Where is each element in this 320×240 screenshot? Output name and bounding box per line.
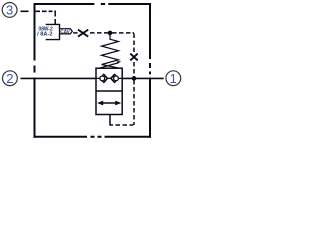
check valve left diamond [100, 74, 108, 82]
check valve left seat [104, 74, 108, 82]
svg-text:1: 1 [170, 71, 177, 86]
svg-text:/ 8A-2: / 8A-2 [37, 32, 52, 38]
port 3 circle [2, 2, 17, 17]
svg-text:3: 3 [6, 3, 13, 18]
check valve left ball [100, 76, 105, 81]
envelope right border [149, 3, 151, 138]
pilot line cavity to spring (dashed) [73, 32, 134, 34]
drain stub to valve box [109, 115, 111, 126]
svg-text:2: 2 [6, 71, 13, 86]
envelope bottom border [34, 136, 152, 138]
drain pilot vertical (dashed) with corner [110, 34, 134, 126]
spring [102, 33, 120, 68]
junction dot on port 1 line [132, 76, 137, 81]
double arrow [100, 102, 119, 104]
port 2 line [21, 77, 97, 79]
port 1 circle [166, 71, 181, 86]
check valve right seat [111, 74, 115, 82]
cavity CAV flag [60, 29, 73, 34]
adjustment arrow [99, 63, 118, 68]
check valve right diamond [111, 74, 119, 82]
pilot stub down to cavity [54, 11, 56, 24]
junction dot at spring top [108, 31, 113, 36]
plugged orifice X2 [130, 54, 137, 61]
plugged orifice X1 [78, 30, 88, 37]
port 2 circle [2, 71, 17, 86]
svg-text:CAV: CAV [60, 29, 70, 35]
envelope left border [34, 3, 36, 138]
check valve right ball [114, 76, 119, 81]
valve box [96, 68, 122, 114]
valve box divider [96, 90, 122, 92]
cavity bracket outline [46, 24, 60, 39]
pilot line from port 3 (dashed) [21, 10, 57, 12]
envelope top border [34, 3, 151, 5]
port 1 line [122, 77, 164, 79]
check valve inner line [96, 77, 122, 79]
